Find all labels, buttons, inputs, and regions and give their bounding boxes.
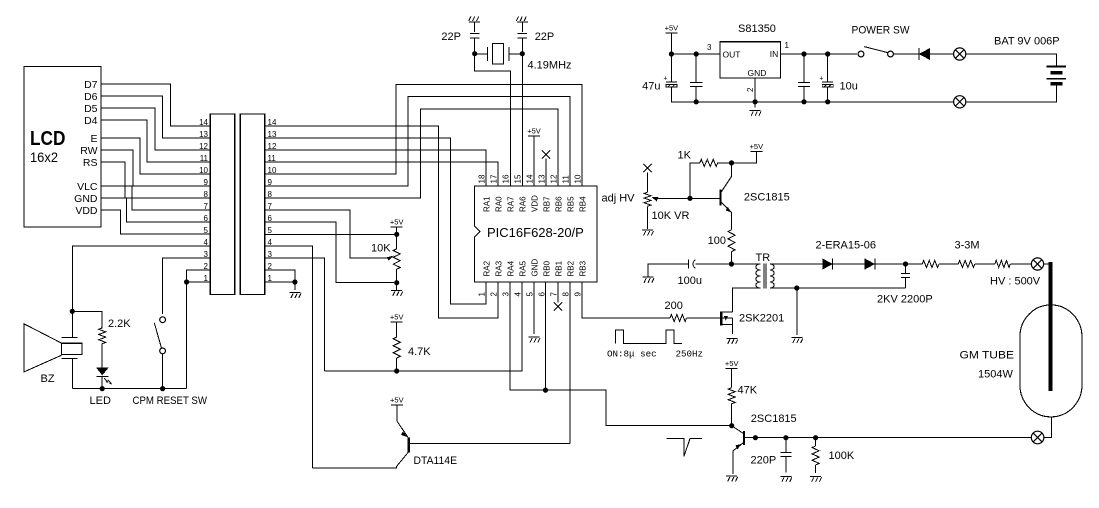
svg-text:D6: D6 xyxy=(84,91,98,103)
wire base row xyxy=(755,437,1031,439)
junction buzzer top xyxy=(70,309,75,314)
+5V supply 10K pot xyxy=(390,218,404,235)
svg-text:+5V: +5V xyxy=(390,218,404,227)
wire U1 pin5 to ground xyxy=(533,282,535,334)
label 22P left xyxy=(441,31,461,43)
resistor 4.7K xyxy=(393,337,400,358)
resistor 3M a xyxy=(922,261,939,268)
junction HV cap xyxy=(903,261,908,266)
resistor 100K xyxy=(812,438,819,473)
CN1 pin 1 label xyxy=(204,274,209,283)
U1 port label RA6 xyxy=(519,196,528,212)
U1 port label RA7 xyxy=(507,196,516,212)
svg-text:RA5: RA5 xyxy=(519,260,528,276)
wire LCD D6 to connector xyxy=(101,96,210,138)
svg-text:100: 100 xyxy=(708,235,726,247)
wire LCD GND to connector xyxy=(101,198,210,222)
svg-text:5: 5 xyxy=(204,226,209,235)
wire base to 1K xyxy=(690,163,700,198)
svg-text:RA6: RA6 xyxy=(519,196,528,212)
wire xyxy=(101,344,103,368)
buzzer rail xyxy=(72,388,186,390)
svg-text:12: 12 xyxy=(199,142,208,151)
svg-text:14: 14 xyxy=(526,174,535,183)
wire U1 pin6 xyxy=(545,282,547,390)
CN1 pin 12 label xyxy=(199,142,208,151)
resistor 200 xyxy=(670,315,687,322)
svg-text:RB7: RB7 xyxy=(543,196,552,212)
transistor Q1 2SC1815 xyxy=(690,163,732,230)
svg-text:3: 3 xyxy=(268,250,273,259)
wire xyxy=(966,54,1057,67)
wire primary top xyxy=(732,263,761,265)
svg-text:RS: RS xyxy=(83,157,98,169)
svg-text:VDD: VDD xyxy=(75,205,98,217)
wire CN2 row5 to +5V node xyxy=(265,233,397,235)
LED D4 xyxy=(96,367,112,384)
svg-text:4: 4 xyxy=(268,238,273,247)
svg-text:2.2K: 2.2K xyxy=(108,318,131,330)
wire xyxy=(71,311,73,337)
svg-text:1: 1 xyxy=(785,41,790,50)
U1 port label RB7 xyxy=(543,196,552,212)
U1 bottom pin 5 number xyxy=(526,292,535,297)
svg-text:9: 9 xyxy=(574,292,583,297)
U1 port label RB6 xyxy=(555,196,564,212)
svg-text:POWER SW: POWER SW xyxy=(852,25,911,37)
label adj HV xyxy=(602,193,636,205)
capacitor 2KV 2200P xyxy=(901,264,910,288)
wire CN1 row4 to buzzer net xyxy=(72,246,210,311)
wire U2 out rail xyxy=(781,53,858,55)
wire xyxy=(687,317,720,319)
U1 port label RA1 xyxy=(483,196,492,212)
wire xyxy=(647,206,649,229)
svg-text:100u: 100u xyxy=(678,275,702,287)
wire LCD D4 to connector xyxy=(101,120,210,162)
potentiometer 10K xyxy=(393,249,400,269)
U1 port label RA3 xyxy=(495,260,504,276)
svg-text:RB1: RB1 xyxy=(555,260,564,276)
svg-text:BAT 9V 006P: BAT 9V 006P xyxy=(994,36,1060,48)
CN2 pin 13 label xyxy=(268,130,277,139)
potentiometer 10K VR xyxy=(644,192,651,206)
wire xyxy=(718,162,732,164)
ground U2 pin2 xyxy=(750,102,762,116)
svg-text:10: 10 xyxy=(268,166,277,175)
svg-text:4: 4 xyxy=(514,292,523,297)
CN1 pin 8 label xyxy=(204,190,209,199)
wire secondary bottom xyxy=(770,287,906,289)
CN2 pin 3 label xyxy=(268,250,273,259)
wire CN1 row1 tie xyxy=(187,281,211,283)
svg-text:+5V: +5V xyxy=(390,396,404,405)
ground 220P xyxy=(780,476,792,482)
terminal HV xyxy=(1031,258,1043,270)
label PIC16F628-20/P xyxy=(487,225,584,240)
label 4.19MHz xyxy=(528,60,572,72)
svg-text:14: 14 xyxy=(268,118,277,127)
junction C3 top xyxy=(801,51,806,56)
GM tube anode xyxy=(1048,262,1052,391)
svg-text:RB4: RB4 xyxy=(579,196,588,212)
LCD pin label VLC xyxy=(77,181,98,193)
label 250Hz xyxy=(676,349,704,360)
wire CN2 row11 to PIC pin17 xyxy=(265,162,498,186)
wire xyxy=(695,263,731,265)
svg-text:5: 5 xyxy=(526,292,535,297)
svg-text:GND: GND xyxy=(748,68,767,78)
svg-text:8: 8 xyxy=(562,292,571,297)
wire CN2 row4 to DTA114E collector xyxy=(265,246,313,468)
wire crystal right to U1 pin15 xyxy=(521,54,523,186)
label OUT xyxy=(723,50,741,60)
buzzer BZ xyxy=(24,324,82,372)
svg-text:RA1: RA1 xyxy=(483,196,492,212)
svg-text:+: + xyxy=(819,76,823,83)
svg-text:RB6: RB6 xyxy=(555,196,564,212)
CN1 pin 2 label xyxy=(204,262,209,271)
U1 port label VDD xyxy=(531,195,540,212)
label 2SC1815 Q1 xyxy=(744,192,790,204)
svg-text:GND: GND xyxy=(74,193,98,205)
junction LED rail xyxy=(100,386,105,391)
switch POWER SW xyxy=(858,47,893,57)
CN2 pin 12 label xyxy=(268,142,277,151)
svg-text:+5V: +5V xyxy=(665,24,679,33)
label IN xyxy=(770,49,779,59)
regulator U2 S81350 body xyxy=(720,42,781,78)
LCD module block xyxy=(24,67,101,228)
wire xyxy=(796,288,798,335)
wire U2 pin2 xyxy=(754,78,756,102)
wire buzzer bottom xyxy=(71,359,73,389)
U1 bottom pin 8 number xyxy=(562,292,571,297)
label 1504W xyxy=(978,369,1013,381)
label pin 1 xyxy=(785,41,790,50)
resistor 3M b xyxy=(958,261,975,268)
svg-text:12: 12 xyxy=(550,174,559,183)
svg-text:2SC1815: 2SC1815 xyxy=(744,192,790,204)
wiper arrowhead HV xyxy=(652,197,659,202)
transistor Q4 DTA114E xyxy=(312,421,570,468)
svg-text:adj HV: adj HV xyxy=(602,193,636,205)
label 3-3M xyxy=(955,240,980,252)
svg-text:3: 3 xyxy=(707,43,712,52)
wire CN2 row6 to pot bottom xyxy=(265,222,395,283)
label 10u xyxy=(840,81,858,93)
ground left 22P xyxy=(469,17,481,23)
svg-text:PIC16F628-20/P: PIC16F628-20/P xyxy=(487,225,584,240)
capacitor 100u xyxy=(689,260,696,269)
+5V supply 4.7K xyxy=(390,313,404,337)
wire LCD E to connector xyxy=(101,138,210,174)
U1 top pin 11 number xyxy=(562,175,571,184)
+5V supply Q1 xyxy=(732,142,764,163)
CN2 pin 5 label xyxy=(268,226,273,235)
U1 port label RA0 xyxy=(495,196,504,212)
label 22P right xyxy=(535,31,555,43)
U1 bottom pin 1 number xyxy=(478,292,487,297)
wire LCD VLC to connector xyxy=(101,186,210,210)
svg-text:RA3: RA3 xyxy=(495,260,504,276)
label 2-ERA15-06 xyxy=(816,240,877,252)
wire primary bottom to drain xyxy=(733,288,761,312)
ground secondary xyxy=(791,338,803,344)
+5V supply U1 pin14 xyxy=(527,127,541,187)
CN2 pin 8 label xyxy=(268,190,273,199)
transistor Q3 2SK2201 xyxy=(721,288,732,334)
transistor Q2 2SC1815 xyxy=(732,426,756,474)
svg-text:+5V: +5V xyxy=(725,359,739,368)
junction Q1 collector xyxy=(729,160,734,165)
ground 100K xyxy=(810,476,822,482)
wire 2.2K branch xyxy=(72,311,102,328)
junction +5V row5 xyxy=(394,232,399,237)
LCD pin label D7 xyxy=(84,79,98,91)
CN1 pin 13 label xyxy=(199,130,208,139)
wiper arrowhead xyxy=(387,256,394,261)
svg-text:22P: 22P xyxy=(535,31,555,43)
svg-text:RA2: RA2 xyxy=(483,260,492,276)
resistor 2.2K xyxy=(99,328,106,344)
svg-text:D5: D5 xyxy=(84,103,98,115)
wire U1 pin13 xyxy=(545,159,547,187)
junction crystal right xyxy=(520,51,525,56)
wire CN2 row3 to MCLR net xyxy=(265,258,325,371)
svg-text:13: 13 xyxy=(538,174,547,183)
wire CN2 row8 (RS bus) to PIC pin12 xyxy=(265,109,558,198)
wire U1 pin9 to gate xyxy=(582,282,670,318)
CN2 pin 7 label xyxy=(268,202,273,211)
svg-text:47K: 47K xyxy=(738,385,758,397)
terminal battery- xyxy=(954,96,966,108)
wire pot bottom xyxy=(396,269,398,283)
LCD pin label D6 xyxy=(84,91,98,103)
CN2 pin 1 label xyxy=(268,274,273,283)
wire xyxy=(521,22,523,32)
svg-text:1504W: 1504W xyxy=(978,369,1013,381)
CN1 pin 4 label xyxy=(204,238,209,247)
+5V supply 47K xyxy=(725,359,739,388)
svg-text:E: E xyxy=(90,133,97,145)
capacitor 22P right xyxy=(518,34,527,38)
label 100K xyxy=(829,450,855,462)
U1 port label RB5 xyxy=(567,196,576,212)
transformer TR core xyxy=(764,264,766,289)
svg-text:2KV 2200P: 2KV 2200P xyxy=(877,294,933,306)
svg-text:LCD: LCD xyxy=(30,128,66,150)
wire CN2 row9 (RW bus) to PIC pin11 xyxy=(265,97,570,187)
wire GM cathode xyxy=(1044,417,1052,438)
wire LCD D7 to connector xyxy=(101,84,210,126)
wire LCD RW to connector xyxy=(101,150,210,186)
wire tie down to buzzer rail xyxy=(186,282,188,389)
wire LCD D5 to connector xyxy=(101,108,210,150)
CN2 pin 2 label xyxy=(268,262,273,271)
no-connect X pot top xyxy=(643,164,651,172)
capacitor 47u xyxy=(666,54,677,102)
svg-text:7: 7 xyxy=(268,202,273,211)
resistor 3M c xyxy=(995,261,1010,268)
svg-text:4: 4 xyxy=(204,238,209,247)
svg-text:11: 11 xyxy=(200,154,209,163)
svg-text:12: 12 xyxy=(268,142,277,151)
svg-text:11: 11 xyxy=(268,154,277,163)
label HV : 500V xyxy=(990,276,1041,288)
LCD pin label E xyxy=(90,133,97,145)
waveform pulse train xyxy=(616,330,682,344)
CN1 pin 9 label xyxy=(204,178,209,187)
svg-text:D7: D7 xyxy=(84,79,98,91)
svg-text:47u: 47u xyxy=(642,81,660,93)
wire xyxy=(966,85,1057,102)
svg-text:7: 7 xyxy=(204,202,209,211)
junction 10u top xyxy=(825,51,830,56)
U1 top pin 15 number xyxy=(514,174,523,183)
svg-text:10u: 10u xyxy=(840,81,858,93)
ground 10K VR xyxy=(642,230,654,236)
wire CN1 row3 to CPM switch xyxy=(163,258,211,314)
junction 220P xyxy=(783,435,788,440)
wire CN2 row13 to PIC pin1 xyxy=(265,138,486,304)
GM tube body xyxy=(1020,305,1082,417)
svg-text:6: 6 xyxy=(268,214,273,223)
label CPM RESET SW xyxy=(133,395,208,407)
junction 4.7K row3 xyxy=(394,368,399,373)
junction Q2 collector xyxy=(729,423,734,428)
svg-text:10: 10 xyxy=(574,174,583,183)
LCD pin label RW xyxy=(80,145,97,157)
svg-text:3: 3 xyxy=(204,250,209,259)
junction TR primary top xyxy=(729,261,734,266)
crystal X1 4.19MHz xyxy=(475,44,523,65)
wire CN2 row1 tie xyxy=(265,281,295,283)
svg-text:RA7: RA7 xyxy=(507,196,516,212)
junction CN2 rows1-2 xyxy=(292,279,297,284)
svg-text:LED: LED xyxy=(90,395,111,407)
label DTA114E xyxy=(414,455,458,467)
junction switch rail xyxy=(160,386,165,391)
svg-text:2: 2 xyxy=(268,262,273,271)
label BZ xyxy=(41,373,55,385)
svg-text:18: 18 xyxy=(478,174,487,183)
svg-text:11: 11 xyxy=(562,175,571,184)
resistor 47K xyxy=(728,388,735,404)
label ON:8usec xyxy=(607,349,657,360)
label 10K VR xyxy=(652,210,690,222)
label 47K xyxy=(738,385,758,397)
no-connect X pin13 xyxy=(542,150,550,158)
svg-text:BZ: BZ xyxy=(41,373,55,385)
LCD pin label GND xyxy=(74,193,98,205)
CN1 pin 7 label xyxy=(204,202,209,211)
U1 port label RA2 xyxy=(483,260,492,276)
+5V supply rail xyxy=(665,24,679,55)
battery BT1 xyxy=(1047,67,1067,84)
wire secondary top xyxy=(770,263,823,265)
capacitor 10u xyxy=(822,54,833,102)
svg-text:14: 14 xyxy=(199,118,208,127)
U1 port label RB0 xyxy=(543,260,552,276)
label GND xyxy=(748,68,767,78)
CN2 pin 10 label xyxy=(268,166,277,175)
label 100 xyxy=(708,235,726,247)
svg-text:8: 8 xyxy=(268,190,273,199)
svg-text:HV : 500V: HV : 500V xyxy=(990,276,1041,288)
svg-text:1: 1 xyxy=(478,292,487,297)
svg-text:17: 17 xyxy=(490,174,499,183)
U1 top pin 14 number xyxy=(526,174,535,183)
wire CN2 row2 tie xyxy=(265,270,295,282)
svg-text:10K VR: 10K VR xyxy=(652,210,690,222)
svg-text:10K: 10K xyxy=(371,243,391,255)
svg-text:OUT: OUT xyxy=(723,50,741,60)
svg-text:+: + xyxy=(663,76,667,83)
junction C2 bottom xyxy=(694,99,699,104)
label 2SK2201 xyxy=(739,313,784,325)
svg-text:RA4: RA4 xyxy=(507,260,516,276)
svg-text:RB0: RB0 xyxy=(543,260,552,276)
svg-text:3: 3 xyxy=(502,292,511,297)
svg-text:7: 7 xyxy=(550,292,559,297)
wire xyxy=(521,38,523,54)
wire pot bottom to ground xyxy=(396,283,398,291)
CN2 pin 6 label xyxy=(268,214,273,223)
ground 100u xyxy=(643,277,655,283)
label TR xyxy=(756,252,771,264)
svg-text:RB2: RB2 xyxy=(567,260,576,276)
wire CN2 row10 (E bus) to PIC pin10 xyxy=(265,85,582,187)
wire xyxy=(1010,263,1031,265)
svg-text:3-3M: 3-3M xyxy=(955,240,980,252)
svg-text:2: 2 xyxy=(746,87,755,92)
U1 port label RB3 xyxy=(579,260,588,276)
U1 bottom pin 6 number xyxy=(538,292,547,297)
label 47u xyxy=(642,81,660,93)
CN2 pin 11 label xyxy=(268,154,277,163)
U1 port label RA4 xyxy=(507,260,516,276)
svg-text:+5V: +5V xyxy=(390,313,404,322)
svg-text:ON:8μ sec: ON:8μ sec xyxy=(607,349,657,360)
junction 47u top xyxy=(669,51,674,56)
U1 bottom pin 9 number xyxy=(574,292,583,297)
svg-text:IN: IN xyxy=(770,49,779,59)
label S81350 xyxy=(738,23,776,35)
wire wiper xyxy=(656,197,690,199)
LCD pin label D4 xyxy=(84,115,98,127)
CN1 pin 3 label xyxy=(204,250,209,259)
ground pot 10K xyxy=(391,291,403,297)
label BAT 9V 006P xyxy=(994,36,1060,48)
diode D3 xyxy=(919,48,954,60)
label POWER SW xyxy=(852,25,911,37)
CN2 pin 14 label xyxy=(268,118,277,127)
wire U1 pin3 net xyxy=(510,282,732,426)
U1 port label RA5 xyxy=(519,260,528,276)
+5V supply DTA114E xyxy=(390,396,404,421)
wire xyxy=(975,263,995,265)
wire CN1 row2 tie xyxy=(187,270,211,282)
svg-text:+5V: +5V xyxy=(750,142,764,151)
svg-text:DTA114E: DTA114E xyxy=(414,455,458,467)
diode D2 ERA15-06 xyxy=(865,258,906,269)
terminal battery+ xyxy=(954,48,966,60)
svg-text:S81350: S81350 xyxy=(738,23,776,35)
CN1 pin 11 label xyxy=(200,154,209,163)
svg-text:15: 15 xyxy=(514,174,523,183)
wire xyxy=(939,263,958,265)
